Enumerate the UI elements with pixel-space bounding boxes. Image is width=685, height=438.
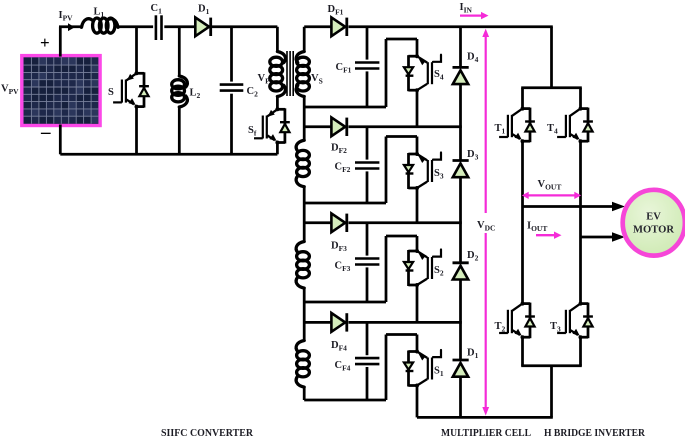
diode D3 [453, 161, 469, 178]
label VS [311, 73, 323, 86]
transistor T3 [557, 302, 593, 340]
wire H right leg upper [579, 88, 582, 109]
wire top right segment [304, 25, 553, 28]
wire CF1 branch [366, 27, 369, 107]
transistor T4 [557, 107, 593, 144]
label DF1 [328, 4, 344, 17]
wire primary bottom lead [276, 97, 279, 110]
label S3 [434, 168, 444, 181]
current arrow IIN [460, 12, 489, 19]
transistor S2 [404, 249, 441, 287]
wire S2 emitter [416, 285, 419, 322]
wire M3 [304, 301, 386, 304]
voltage arrow VOUT [522, 192, 581, 199]
wire H left leg upper [521, 88, 524, 109]
capacitor CF3 [355, 259, 379, 265]
voltage arrow VDC [482, 29, 489, 416]
label C1 [151, 3, 163, 16]
svg-text:–: – [40, 122, 51, 143]
label DF3 [331, 241, 347, 254]
wire chain seg3 [303, 288, 306, 340]
label T1 [495, 123, 506, 136]
wire H center drop [550, 366, 553, 418]
wire row 2 [304, 125, 462, 128]
current arrow IOUT [536, 232, 562, 239]
transistor T1 [499, 107, 535, 144]
capacitor CF1 [355, 63, 379, 69]
wire H bottom bar [521, 364, 582, 367]
diode DF2 [331, 117, 346, 136]
transformer primary VP [270, 52, 286, 97]
wire M1 [304, 106, 386, 109]
wire over 4 [386, 333, 417, 336]
transformer secondary VS [296, 52, 309, 97]
capacitor CF4 [355, 358, 379, 364]
svg-text:EV: EV [646, 212, 661, 223]
transformer core [287, 51, 293, 96]
label D2 [467, 250, 479, 263]
wire H right leg mid [579, 141, 582, 303]
svg-text:MOTOR: MOTOR [633, 225, 674, 236]
wire H supply drop [550, 27, 553, 88]
wire Sf emitter [276, 143, 279, 155]
PV panel VPV [22, 56, 106, 131]
label IIN [460, 2, 473, 15]
wire over 1 [386, 38, 417, 41]
label D1 [467, 348, 479, 361]
diode DF1 [331, 17, 346, 36]
label VDC [477, 220, 495, 233]
wire bottom rail [417, 416, 553, 419]
label D4 [467, 52, 479, 65]
inductor L2 [172, 76, 188, 107]
svg-text:H BRIDGE INVERTER: H BRIDGE INVERTER [544, 427, 646, 438]
label CF1 [336, 62, 352, 75]
transistor T2 [499, 302, 535, 340]
diode D1 [453, 360, 469, 377]
label L2 [190, 88, 201, 101]
winding W2 [296, 140, 309, 187]
diode D4 [453, 67, 469, 84]
wire H top bar [521, 86, 582, 89]
label CF3 [335, 261, 351, 274]
wire top left segment [59, 25, 277, 28]
wire CF3 branch [366, 223, 369, 302]
label T2 [495, 321, 506, 334]
wire S4 emitter [416, 90, 419, 127]
current arrow IPV [68, 23, 75, 31]
wire chain seg4 [303, 387, 306, 400]
wire primary top lead [276, 27, 279, 52]
wire M4 [304, 399, 386, 402]
wire output upper [523, 202, 626, 212]
capacitor C1 [156, 15, 162, 40]
winding W3 [296, 242, 309, 289]
label CF2 [335, 162, 351, 175]
diode D2 [453, 263, 469, 280]
wire S3 collector [416, 137, 419, 155]
label D1 [198, 4, 210, 17]
label DF2 [331, 143, 347, 156]
caption MULTIPLIER CELL [441, 427, 531, 438]
label DF4 [331, 340, 347, 353]
label VOUT [538, 179, 562, 192]
wire riser 1 [385, 39, 388, 107]
label L1 [94, 7, 105, 20]
label VP [258, 73, 271, 86]
wire row 4 [304, 321, 462, 324]
wire S4 collector [416, 39, 419, 56]
transistor S3 [404, 152, 441, 190]
wire S2 collector [416, 236, 419, 251]
diode DF4 [331, 313, 346, 332]
label T4 [547, 123, 558, 136]
transistor S [113, 71, 149, 108]
EV motor [623, 190, 685, 256]
wire output lower [581, 232, 626, 242]
wire CF4 branch [366, 322, 369, 400]
diode DF3 [331, 213, 346, 232]
wire riser 3 [385, 236, 388, 302]
wire H left leg lower [521, 337, 524, 366]
wire chain seg2 [303, 187, 306, 242]
label CF4 [335, 360, 351, 373]
capacitor CF2 [355, 163, 379, 169]
wire branch L2 [178, 27, 181, 155]
capacitor C2 [220, 85, 244, 91]
label T3 [550, 321, 561, 334]
wire S3 emitter [416, 188, 419, 223]
wire H left leg mid [521, 141, 524, 303]
wire row 3 [304, 221, 462, 224]
wire over 2 [386, 135, 417, 138]
label C2 [247, 86, 259, 99]
wire CF2 branch [366, 127, 369, 203]
wire riser 4 [385, 335, 388, 401]
svg-text:S: S [108, 87, 114, 98]
label IPV [59, 10, 74, 23]
svg-text:+: + [40, 33, 50, 52]
wire riser 2 [385, 137, 388, 204]
svg-text:MULTIPLIER CELL: MULTIPLIER CELL [441, 427, 531, 438]
transistor S1 [404, 350, 441, 388]
label S4 [434, 69, 444, 82]
transistor S4 [404, 54, 441, 92]
wire H right leg lower [579, 337, 582, 366]
caption H BRIDGE INVERTER [544, 427, 646, 438]
wire S1 emitter [416, 386, 419, 418]
label S [108, 87, 114, 98]
wire SIIFC bottom [60, 153, 277, 156]
label IOUT [527, 221, 547, 234]
diode D1 [195, 17, 210, 36]
wire branch S [135, 27, 138, 155]
caption SIIFC CONVERTER [161, 427, 254, 438]
wire secondary top lead [303, 27, 306, 52]
wire branch C2 [230, 27, 233, 155]
wire PV bottom riser [59, 125, 62, 155]
label S2 [434, 265, 444, 278]
minus terminal [40, 122, 51, 143]
transistor Sf [254, 107, 290, 144]
winding W4 [296, 341, 309, 388]
label D3 [467, 149, 479, 162]
label S1 [434, 366, 444, 379]
wire M2 [304, 202, 386, 205]
label Sf [248, 125, 257, 138]
wire S1 collector [416, 335, 419, 352]
label VPV [1, 84, 19, 97]
wire PV top riser [59, 27, 62, 57]
wire DC rail [459, 27, 462, 418]
wire over 3 [386, 235, 417, 238]
wire chain seg1 [303, 97, 306, 141]
plus terminal [40, 33, 50, 52]
inductor L1 [82, 18, 119, 33]
svg-text:SIIFC CONVERTER: SIIFC CONVERTER [161, 427, 254, 438]
